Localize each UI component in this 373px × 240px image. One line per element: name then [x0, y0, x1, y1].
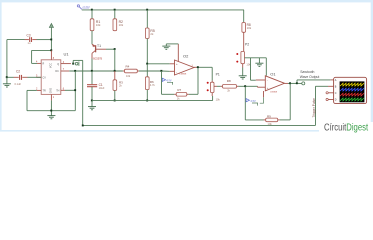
- svg-text:C2: C2: [16, 70, 20, 74]
- wire trigger pulse run: [73, 60, 328, 126]
- ground C2: [3, 77, 11, 87]
- svg-text:R: R: [43, 63, 45, 66]
- svg-text:LM358: LM358: [270, 91, 277, 93]
- op-amp U1 555 timer box: [36, 50, 71, 100]
- node junction R3-R4: [114, 70, 116, 72]
- ground P2: [239, 68, 247, 80]
- svg-text:R9: R9: [267, 114, 271, 118]
- node junction O2 minus feedback: [160, 70, 162, 72]
- pin 2 TR lead: [37, 89, 41, 91]
- page border frame (decorative blue): [0, 0, 373, 2]
- svg-text:O1: O1: [270, 71, 276, 76]
- svg-text:R6: R6: [150, 80, 154, 84]
- svg-text:10k: 10k: [126, 74, 131, 78]
- resistor R2: [113, 10, 124, 31]
- pin 5 CV lead: [37, 76, 42, 78]
- svg-text:O2: O2: [183, 54, 189, 59]
- wire C3 left drop: [6, 40, 8, 78]
- svg-text:Wave Output: Wave Output: [300, 75, 320, 79]
- svg-text:1k: 1k: [177, 96, 180, 100]
- capacitor C3: [7, 34, 52, 46]
- wire bottom analog rail: [92, 100, 213, 102]
- trace yellow sawtooth: [340, 83, 364, 86]
- node junction O1 plus feedback: [244, 85, 246, 87]
- node junction uloop: [74, 70, 76, 72]
- node junction R6 rail: [146, 100, 148, 102]
- svg-text:D: D: [335, 99, 337, 102]
- svg-text:T1: T1: [97, 44, 101, 48]
- wire discharge net y71: [69, 70, 123, 72]
- resistor R1: [90, 10, 101, 31]
- resistor R8 top right: [242, 23, 252, 52]
- svg-text:TH: TH: [56, 90, 59, 93]
- svg-text:U1: U1: [64, 52, 70, 57]
- svg-text:+: +: [176, 62, 178, 66]
- resistor R7: [162, 88, 199, 100]
- node junction fb: [289, 82, 291, 84]
- svg-text:1: 1: [53, 96, 55, 99]
- svg-text:Q: Q: [57, 63, 59, 66]
- wire R5 to O2 top input: [146, 39, 148, 64]
- node junction R3 rail: [114, 100, 116, 102]
- pin 6 TH lead: [61, 89, 65, 91]
- node junction C2-gnd: [6, 76, 8, 78]
- node junction rail-R1: [91, 9, 93, 11]
- node junction C3: [50, 39, 52, 41]
- svg-text:10k: 10k: [119, 23, 124, 27]
- ground wiper: [255, 58, 263, 67]
- svg-text:0.1uF: 0.1uF: [15, 82, 22, 86]
- node output terminal pin3: [72, 62, 79, 66]
- svg-text:Trigger Pulse: Trigger Pulse: [312, 98, 316, 118]
- wire P2 wiper net: [245, 58, 267, 80]
- node junction gnd1: [50, 110, 52, 112]
- node junction R5-R6 tap: [146, 63, 148, 65]
- resistor R4: [123, 65, 139, 78]
- resistor R5: [145, 10, 154, 39]
- svg-text:R8: R8: [227, 79, 231, 83]
- wire R4 to O2 plus: [139, 70, 162, 72]
- node junction T1-C1: [91, 70, 93, 72]
- pin 3 Q lead: [61, 63, 71, 65]
- pin 4 R lead: [37, 62, 41, 64]
- wire U-loop TR-TH: [27, 71, 75, 116]
- svg-text:VCC: VCC: [49, 63, 52, 68]
- svg-text:1u: 1u: [28, 41, 31, 45]
- svg-text:BC557B: BC557B: [93, 57, 102, 60]
- ground O2 vplus: [162, 44, 178, 49]
- pin 8 VCC lead: [50, 50, 52, 59]
- svg-text:+: +: [267, 86, 269, 90]
- resistor R9: [264, 114, 280, 126]
- node junction rail-R2: [114, 9, 116, 11]
- capacitor C1: [87, 71, 105, 101]
- transistor T1 BC557: [92, 31, 115, 71]
- svg-text:C1: C1: [99, 83, 103, 87]
- pin 1 GND lead: [50, 94, 52, 100]
- wire O1 plus input: [245, 85, 257, 87]
- svg-text:P2: P2: [245, 42, 249, 46]
- svg-text:Sawtooth: Sawtooth: [300, 70, 314, 74]
- resistor R8b to O1 plus: [217, 79, 245, 93]
- scope pin D: [326, 98, 328, 100]
- svg-text:C: C: [335, 92, 337, 95]
- svg-text:10k: 10k: [247, 26, 252, 30]
- ground U1 pin1: [47, 116, 55, 119]
- svg-text:DC: DC: [55, 70, 59, 73]
- wire VCC node to C3/pin8: [32, 40, 52, 64]
- svg-text:LM358: LM358: [180, 73, 187, 75]
- svg-text:GND: GND: [49, 88, 52, 94]
- node junction TH: [74, 89, 76, 91]
- wire R2 col down: [114, 49, 116, 71]
- node junction base-R2: [114, 48, 116, 50]
- ground C1: [88, 101, 96, 110]
- pin 7 DC lead: [61, 70, 70, 72]
- scope pin B: [328, 85, 334, 87]
- svg-text:10k: 10k: [268, 122, 273, 126]
- node junction C1-gnd rail: [91, 100, 93, 102]
- svg-text:R7: R7: [177, 88, 181, 92]
- node junction scope branch: [296, 82, 298, 84]
- wire O1 output: [288, 80, 331, 84]
- svg-text:R4: R4: [126, 65, 130, 69]
- svg-text:TR: TR: [43, 90, 46, 93]
- node flag 4.5V on O1 net: [246, 99, 258, 106]
- svg-text:P1: P1: [216, 73, 220, 77]
- node +9V battery flag: [77, 5, 90, 10]
- capacitor C2: [7, 70, 41, 86]
- potentiometer P1: [207, 73, 221, 102]
- scope pin C: [326, 92, 328, 94]
- op-amp O2: [175, 44, 197, 76]
- node junction pin8: [50, 49, 52, 51]
- op-amp O1: [260, 71, 288, 103]
- svg-text:CírcuitDigest: CírcuitDigest: [324, 122, 369, 133]
- svg-text:4.5V: 4.5V: [250, 99, 256, 103]
- node output terminal circle: [302, 82, 305, 85]
- power VCC arrow to U1: [49, 23, 53, 39]
- text sawtooth output label: [300, 70, 320, 79]
- oscilloscope: [326, 77, 367, 103]
- svg-text:-: -: [267, 78, 268, 82]
- resistor R3: [113, 71, 123, 101]
- wire top supply rail: [82, 10, 244, 23]
- node junction rail-R5: [146, 9, 148, 11]
- svg-text:CV: CV: [43, 77, 47, 80]
- wire O2 output: [197, 67, 213, 94]
- svg-text:C3: C3: [27, 34, 31, 38]
- scope pin A: [331, 79, 334, 81]
- svg-text:10k: 10k: [96, 23, 101, 27]
- svg-text:2k: 2k: [227, 89, 230, 93]
- svg-text:-: -: [176, 70, 177, 74]
- svg-text:10k: 10k: [216, 97, 221, 101]
- potentiometer P2: [236, 42, 251, 67]
- svg-text:1: 1: [192, 65, 194, 67]
- node junction O2 out: [197, 66, 199, 68]
- node flag 4.5V on O2 net: [162, 71, 173, 94]
- wire feedback loop R9: [245, 83, 290, 120]
- svg-text:10uF: 10uF: [99, 86, 105, 90]
- svg-text:4.7k: 4.7k: [150, 83, 156, 87]
- resistor R6: [145, 64, 155, 101]
